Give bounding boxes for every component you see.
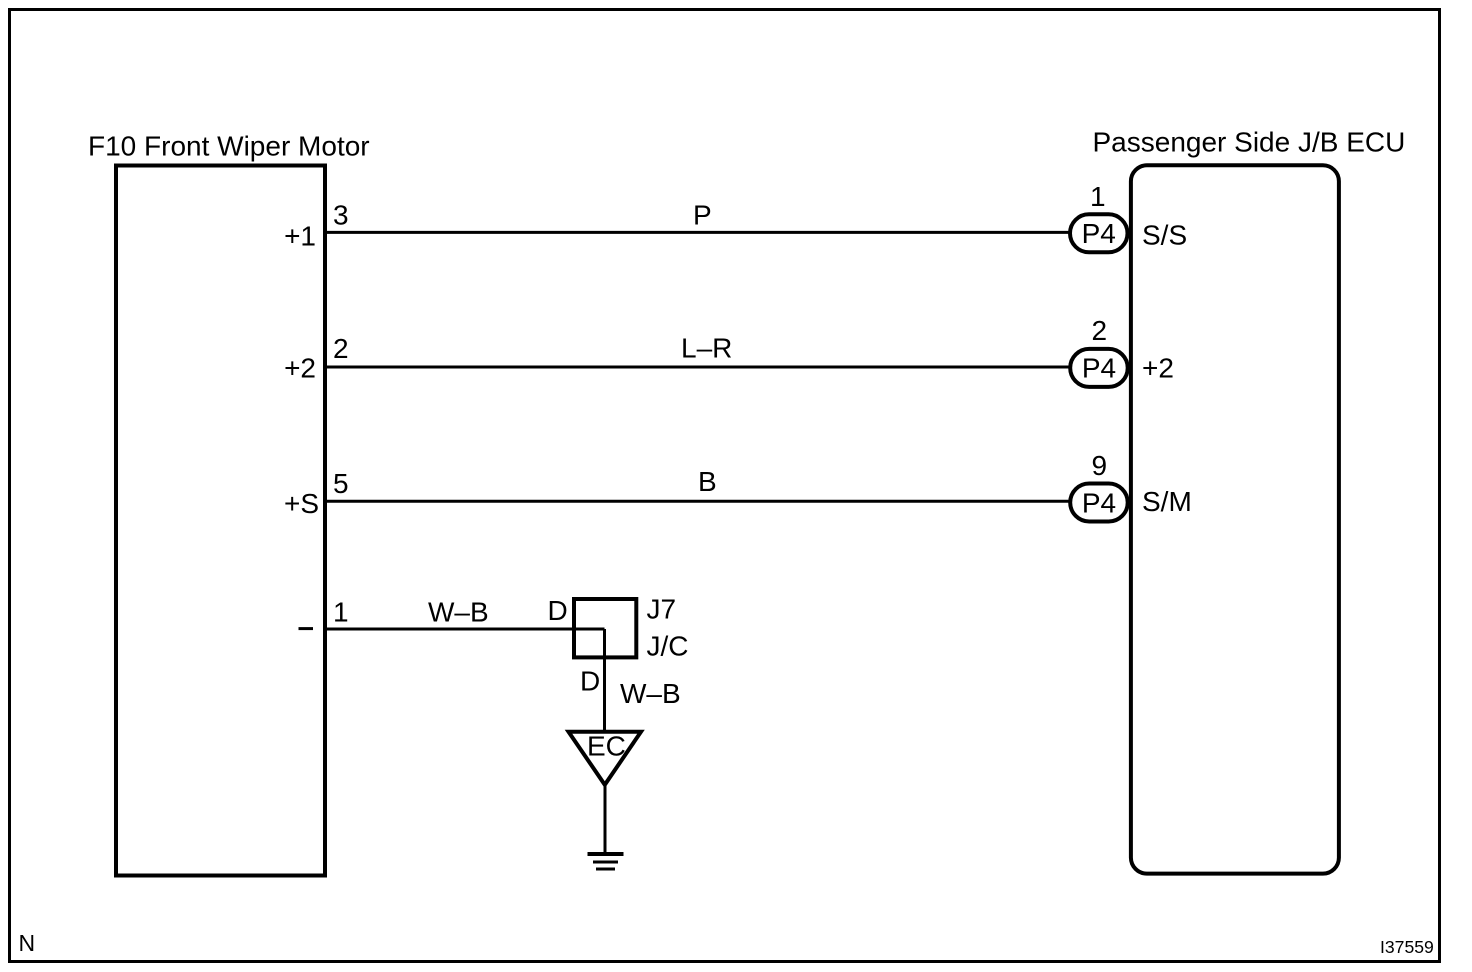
svg-text:1: 1 bbox=[1090, 181, 1106, 212]
svg-text:J/C: J/C bbox=[647, 631, 689, 662]
svg-text:W–B: W–B bbox=[428, 597, 489, 628]
svg-text:P4: P4 bbox=[1082, 353, 1116, 384]
wire B (motor pin 5 to P4 pin 9) bbox=[327, 500, 1071, 503]
svg-text:5: 5 bbox=[333, 468, 349, 499]
connector P4 pin 2 oval bbox=[1070, 349, 1128, 387]
svg-text:P: P bbox=[693, 199, 712, 230]
svg-text:P4: P4 bbox=[1082, 218, 1116, 249]
wire junction vertical drop bbox=[603, 629, 606, 733]
svg-text:EC: EC bbox=[587, 731, 626, 762]
pin label minus bbox=[299, 627, 314, 630]
connector P4 pin 1 oval bbox=[1070, 214, 1128, 252]
svg-text:D: D bbox=[580, 666, 600, 697]
svg-text:W–B: W–B bbox=[620, 678, 681, 709]
ground symbol bbox=[588, 854, 624, 869]
component Passenger Side J/B ECU box bbox=[1131, 165, 1339, 873]
svg-text:+2: +2 bbox=[284, 353, 316, 384]
svg-text:1: 1 bbox=[333, 597, 349, 628]
svg-text:2: 2 bbox=[333, 333, 349, 364]
wire L-R (motor pin 2 to P4 pin 2) bbox=[327, 366, 1071, 369]
component F10 Front Wiper Motor box bbox=[116, 166, 325, 876]
svg-text:S/M: S/M bbox=[1142, 486, 1192, 517]
svg-text:D: D bbox=[548, 595, 568, 626]
svg-text:+S: +S bbox=[284, 488, 319, 519]
svg-text:F10 Front Wiper Motor: F10 Front Wiper Motor bbox=[88, 131, 370, 162]
ground connector EC triangle bbox=[569, 731, 642, 785]
svg-text:I37559: I37559 bbox=[1380, 937, 1434, 957]
connector P4 pin 9 oval bbox=[1070, 484, 1128, 522]
svg-text:3: 3 bbox=[333, 199, 349, 230]
svg-text:N: N bbox=[19, 930, 36, 956]
svg-text:S/S: S/S bbox=[1142, 220, 1187, 251]
svg-text:2: 2 bbox=[1092, 315, 1108, 346]
wire W-B (motor pin 1 to junction J7) bbox=[327, 628, 605, 631]
svg-text:Passenger Side J/B ECU: Passenger Side J/B ECU bbox=[1093, 127, 1406, 158]
svg-text:B: B bbox=[698, 466, 717, 497]
svg-text:L–R: L–R bbox=[681, 333, 732, 364]
svg-text:P4: P4 bbox=[1082, 487, 1116, 518]
svg-text:+2: +2 bbox=[1142, 353, 1174, 384]
svg-text:+1: +1 bbox=[284, 221, 316, 252]
svg-text:J7: J7 bbox=[647, 594, 677, 625]
junction connector J7 J/C box bbox=[574, 599, 636, 657]
wire EC to ground bbox=[604, 785, 607, 854]
wire P (motor pin 3 to P4 pin 1) bbox=[327, 231, 1071, 234]
svg-text:9: 9 bbox=[1092, 450, 1108, 481]
